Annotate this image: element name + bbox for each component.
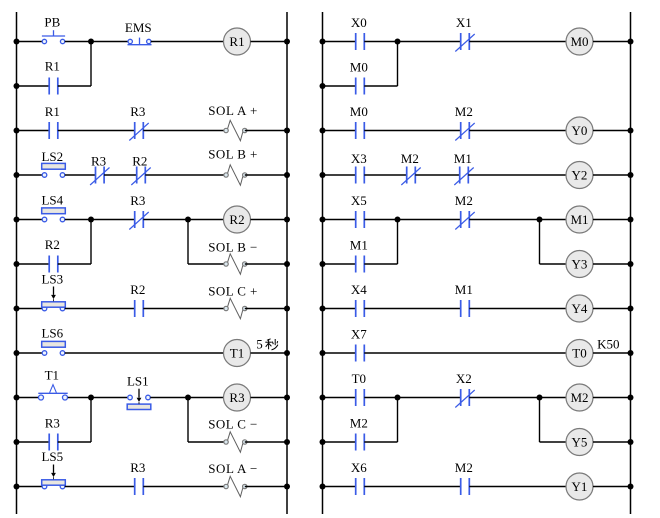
wire: [364, 397, 460, 399]
wire: [469, 308, 566, 310]
contact M2 (NC): [455, 211, 474, 230]
wire: [593, 441, 631, 443]
contact X0 (NO): [356, 33, 365, 50]
svg-text:Y3: Y3: [572, 257, 588, 272]
solenoid SOL C-: [224, 432, 247, 452]
junction: [628, 306, 634, 312]
svg-text:SOL A +: SOL A +: [208, 103, 257, 118]
svg-text:LS3: LS3: [41, 272, 63, 287]
wire: [364, 219, 460, 221]
wire: [323, 219, 356, 221]
svg-text:R1: R1: [229, 34, 244, 49]
wire: [104, 174, 137, 176]
wire: [593, 486, 631, 488]
junction: [628, 395, 634, 401]
node A junction: [88, 39, 94, 45]
svg-text:SOL C +: SOL C +: [208, 284, 257, 299]
svg-text:SOL A −: SOL A −: [208, 461, 257, 476]
svg-text:M1: M1: [454, 151, 472, 166]
wire (node J down): [539, 398, 541, 443]
wire (branch R1 to node A): [90, 42, 92, 87]
svg-text:X5: X5: [351, 193, 367, 208]
svg-text:SOL B +: SOL B +: [208, 147, 257, 162]
wire: [151, 41, 224, 43]
junction: [628, 39, 634, 45]
wire: [17, 263, 50, 265]
wire: [143, 130, 226, 132]
svg-text:EMS: EMS: [125, 20, 152, 35]
wire: [540, 441, 567, 443]
wire (node H down): [539, 220, 541, 265]
limit switch LS6: [42, 341, 66, 355]
wire: [323, 352, 356, 354]
svg-text:SOL C −: SOL C −: [208, 417, 257, 432]
junction: [14, 83, 20, 89]
contact R3 (NC): [129, 122, 148, 141]
svg-text:X3: X3: [351, 151, 367, 166]
junction: [14, 439, 20, 445]
wire: [58, 130, 135, 132]
junction: [284, 39, 290, 45]
junction: [14, 217, 20, 223]
wire: [245, 441, 287, 443]
wire: [469, 219, 566, 221]
wire: [58, 85, 91, 87]
wire: [65, 174, 96, 176]
wire: [364, 486, 460, 488]
wire: [17, 41, 43, 43]
junction: [320, 217, 326, 223]
svg-text:X7: X7: [351, 327, 367, 342]
wire: [17, 486, 43, 488]
wire (branch R3 to node D): [90, 398, 92, 443]
svg-text:X1: X1: [456, 15, 472, 30]
junction: [14, 172, 20, 178]
wire: [58, 441, 91, 443]
svg-text:Y2: Y2: [572, 168, 588, 183]
svg-text:M1: M1: [350, 238, 368, 253]
junction: [320, 306, 326, 312]
contact M0 (NO): [356, 78, 365, 95]
svg-text:M0: M0: [350, 60, 368, 75]
junction: [628, 350, 634, 356]
svg-text:X4: X4: [351, 282, 367, 297]
solenoid SOL C+: [224, 298, 247, 318]
node F junction: [395, 39, 401, 45]
wire: [68, 397, 127, 399]
wire: [323, 263, 356, 265]
svg-text:Y4: Y4: [572, 301, 588, 316]
svg-text:T1: T1: [45, 368, 59, 383]
wire: [469, 486, 566, 488]
coil R2: [224, 206, 251, 233]
svg-text:LS2: LS2: [41, 149, 63, 164]
svg-text:M1: M1: [570, 212, 588, 227]
wire: [469, 41, 566, 43]
contact X2 (NC): [455, 389, 474, 408]
wire: [145, 174, 226, 176]
contact M1 (NO): [356, 256, 365, 273]
wire: [143, 308, 226, 310]
svg-text:R1: R1: [45, 59, 60, 74]
svg-text:M0: M0: [570, 34, 588, 49]
wire: [188, 263, 226, 265]
wire: [17, 85, 50, 87]
contact R2 (NO): [49, 256, 58, 273]
svg-text:R2: R2: [229, 212, 244, 227]
svg-text:R3: R3: [45, 416, 60, 431]
junction: [284, 484, 290, 490]
svg-text:M2: M2: [455, 460, 473, 475]
wire: [245, 486, 287, 488]
svg-text:Y0: Y0: [572, 123, 588, 138]
svg-text:T0: T0: [352, 371, 366, 386]
contact R1 (NO): [49, 78, 58, 95]
svg-text:M0: M0: [350, 104, 368, 119]
label 5sec: [256, 337, 278, 352]
junction: [628, 261, 634, 267]
wire: [469, 130, 566, 132]
coil M0: [566, 28, 593, 55]
contact M1 (NC): [454, 167, 473, 186]
svg-text:R2: R2: [132, 154, 147, 169]
junction: [320, 83, 326, 89]
wire (branch M0 to node F): [397, 42, 399, 87]
node H junction: [537, 217, 543, 223]
coil Y0: [566, 117, 593, 144]
junction: [284, 395, 290, 401]
wire: [540, 263, 567, 265]
node E junction: [185, 395, 191, 401]
solenoid SOL A+: [224, 120, 247, 140]
wire: [593, 219, 631, 221]
wire: [468, 174, 566, 176]
contact R2 (NC): [131, 167, 150, 186]
wire: [323, 85, 356, 87]
wire: [17, 174, 43, 176]
contact R3 (NO): [49, 434, 58, 451]
contact X4 (NO): [356, 300, 365, 317]
svg-text:LS1: LS1: [127, 374, 149, 389]
junction: [14, 350, 20, 356]
timer contact T1: [38, 385, 67, 400]
node C junction: [185, 217, 191, 223]
wire: [143, 486, 226, 488]
contact M1 (NO): [461, 300, 470, 317]
svg-text:LS5: LS5: [41, 449, 63, 464]
contact X3 (NO): [356, 167, 365, 184]
wire (branch R2 to node B): [90, 220, 92, 265]
node G junction: [395, 217, 401, 223]
wire: [593, 397, 631, 399]
junction: [628, 217, 634, 223]
contact T0 (NO): [356, 389, 365, 406]
junction: [14, 39, 20, 45]
coil Y5: [566, 429, 593, 456]
svg-text:5: 5: [256, 337, 263, 352]
wire: [593, 41, 631, 43]
wire: [593, 352, 631, 354]
svg-text:M1: M1: [455, 282, 473, 297]
wire: [150, 397, 223, 399]
svg-text:PB: PB: [44, 15, 60, 30]
limit switch LS4: [42, 208, 66, 222]
wire: [323, 174, 356, 176]
svg-text:R3: R3: [91, 154, 106, 169]
wire (branch M2 to node I): [397, 398, 399, 443]
contact R3 (NC): [90, 167, 109, 186]
junction: [320, 128, 326, 134]
wire: [143, 219, 223, 221]
wire: [17, 397, 39, 399]
svg-text:X2: X2: [456, 371, 472, 386]
limit switch LS2: [42, 163, 66, 177]
contact X1 (NC): [455, 33, 474, 52]
junction: [320, 484, 326, 490]
wire: [364, 130, 460, 132]
wire: [364, 308, 460, 310]
junction: [14, 484, 20, 490]
junction: [320, 439, 326, 445]
svg-text:LS4: LS4: [41, 193, 63, 208]
wire: [245, 263, 287, 265]
wire: [364, 441, 397, 443]
wire: [58, 263, 91, 265]
wire: [17, 441, 50, 443]
wire: [415, 174, 459, 176]
wire: [593, 174, 631, 176]
solenoid SOL B+: [224, 165, 247, 185]
contact M2 (NC): [455, 122, 474, 141]
coil Y1: [566, 473, 593, 500]
coil M2: [566, 384, 593, 411]
svg-text:R3: R3: [130, 193, 145, 208]
wire: [364, 41, 460, 43]
wire: [65, 486, 135, 488]
svg-text:K50: K50: [597, 337, 619, 352]
left ladder left power rail: [16, 12, 18, 514]
junction: [284, 128, 290, 134]
wire: [323, 308, 356, 310]
wire: [245, 130, 287, 132]
coil R1: [224, 28, 251, 55]
right ladder right power rail: [630, 12, 632, 514]
junction: [284, 217, 290, 223]
junction: [284, 261, 290, 267]
wire: [593, 263, 631, 265]
node I junction: [395, 395, 401, 401]
wire: [323, 486, 356, 488]
wire: [17, 219, 43, 221]
contact X7 (NO): [356, 345, 365, 362]
junction: [628, 128, 634, 134]
wire: [245, 308, 287, 310]
node J junction: [537, 395, 543, 401]
wire (node C down): [187, 220, 189, 265]
node D junction: [88, 395, 94, 401]
contact X5 (NO): [356, 211, 365, 228]
svg-text:R2: R2: [130, 282, 145, 297]
wire: [65, 308, 135, 310]
contact M2 (NO): [356, 434, 365, 451]
wire: [364, 174, 406, 176]
coil Y2: [566, 162, 593, 189]
wire: [245, 174, 287, 176]
junction: [14, 395, 20, 401]
svg-text:M2: M2: [455, 104, 473, 119]
contact R1 (NO): [49, 122, 58, 139]
svg-text:M2: M2: [570, 390, 588, 405]
left ladder right power rail: [286, 12, 288, 514]
wire: [65, 41, 128, 43]
junction: [320, 350, 326, 356]
coil T0: [566, 340, 593, 367]
wire: [17, 352, 43, 354]
contact R3 (NC): [129, 211, 148, 230]
coil T1: [224, 340, 251, 367]
solenoid SOL B-: [224, 254, 247, 274]
junction: [320, 395, 326, 401]
contact R3 (NO): [135, 478, 144, 495]
wire: [323, 130, 356, 132]
svg-text:M2: M2: [401, 151, 419, 166]
junction: [320, 172, 326, 178]
limit switch LS3 (actuated): [42, 287, 66, 311]
coil Y4: [566, 295, 593, 322]
wire: [593, 130, 631, 132]
svg-text:R1: R1: [45, 104, 60, 119]
limit switch LS5 (actuated): [42, 465, 66, 489]
svg-text:R3: R3: [130, 104, 145, 119]
pushbutton PB (NO): [42, 30, 65, 44]
pushbutton EMS (NC): [128, 38, 152, 45]
svg-text:R2: R2: [45, 237, 60, 252]
wire: [364, 85, 397, 87]
contact M0 (NO): [356, 122, 365, 139]
right ladder left power rail: [322, 12, 324, 514]
wire (branch M1 to node G): [397, 220, 399, 265]
svg-text:X6: X6: [351, 460, 367, 475]
wire: [17, 130, 50, 132]
svg-text:R3: R3: [229, 390, 244, 405]
svg-text:T0: T0: [572, 346, 586, 361]
node B junction: [88, 217, 94, 223]
wire: [65, 219, 135, 221]
junction: [320, 39, 326, 45]
solenoid SOL A-: [224, 476, 247, 496]
junction: [628, 439, 634, 445]
svg-text:Y5: Y5: [572, 435, 588, 450]
svg-text:X0: X0: [351, 15, 367, 30]
contact R2 (NO): [135, 300, 144, 317]
junction: [14, 128, 20, 134]
wire: [364, 352, 566, 354]
svg-text:T1: T1: [230, 346, 244, 361]
wire: [251, 41, 288, 43]
svg-text:SOL B −: SOL B −: [208, 240, 257, 255]
wire: [323, 41, 356, 43]
junction: [14, 261, 20, 267]
junction: [628, 172, 634, 178]
contact M2 (NO): [461, 478, 470, 495]
junction: [14, 306, 20, 312]
contact X6 (NO): [356, 478, 365, 495]
svg-text:M2: M2: [455, 193, 473, 208]
svg-text:M2: M2: [350, 416, 368, 431]
wire: [323, 397, 356, 399]
coil Y3: [566, 251, 593, 278]
limit switch LS1 (actuated, below): [127, 389, 151, 410]
svg-text:LS6: LS6: [41, 326, 63, 341]
wire: [323, 441, 356, 443]
junction: [284, 306, 290, 312]
junction: [628, 484, 634, 490]
wire: [188, 441, 226, 443]
coil M1: [566, 206, 593, 233]
coil R3: [224, 384, 251, 411]
wire: [364, 263, 397, 265]
contact M2 (NC): [401, 167, 420, 186]
junction: [284, 172, 290, 178]
wire: [251, 219, 288, 221]
wire: [251, 352, 288, 354]
wire: [251, 397, 288, 399]
wire (node E down): [187, 398, 189, 443]
wire: [469, 397, 566, 399]
wire: [65, 352, 224, 354]
svg-text:R3: R3: [130, 460, 145, 475]
junction: [284, 439, 290, 445]
wire: [17, 308, 43, 310]
junction: [320, 261, 326, 267]
junction: [284, 350, 290, 356]
svg-text:Y1: Y1: [572, 479, 588, 494]
wire: [593, 308, 631, 310]
